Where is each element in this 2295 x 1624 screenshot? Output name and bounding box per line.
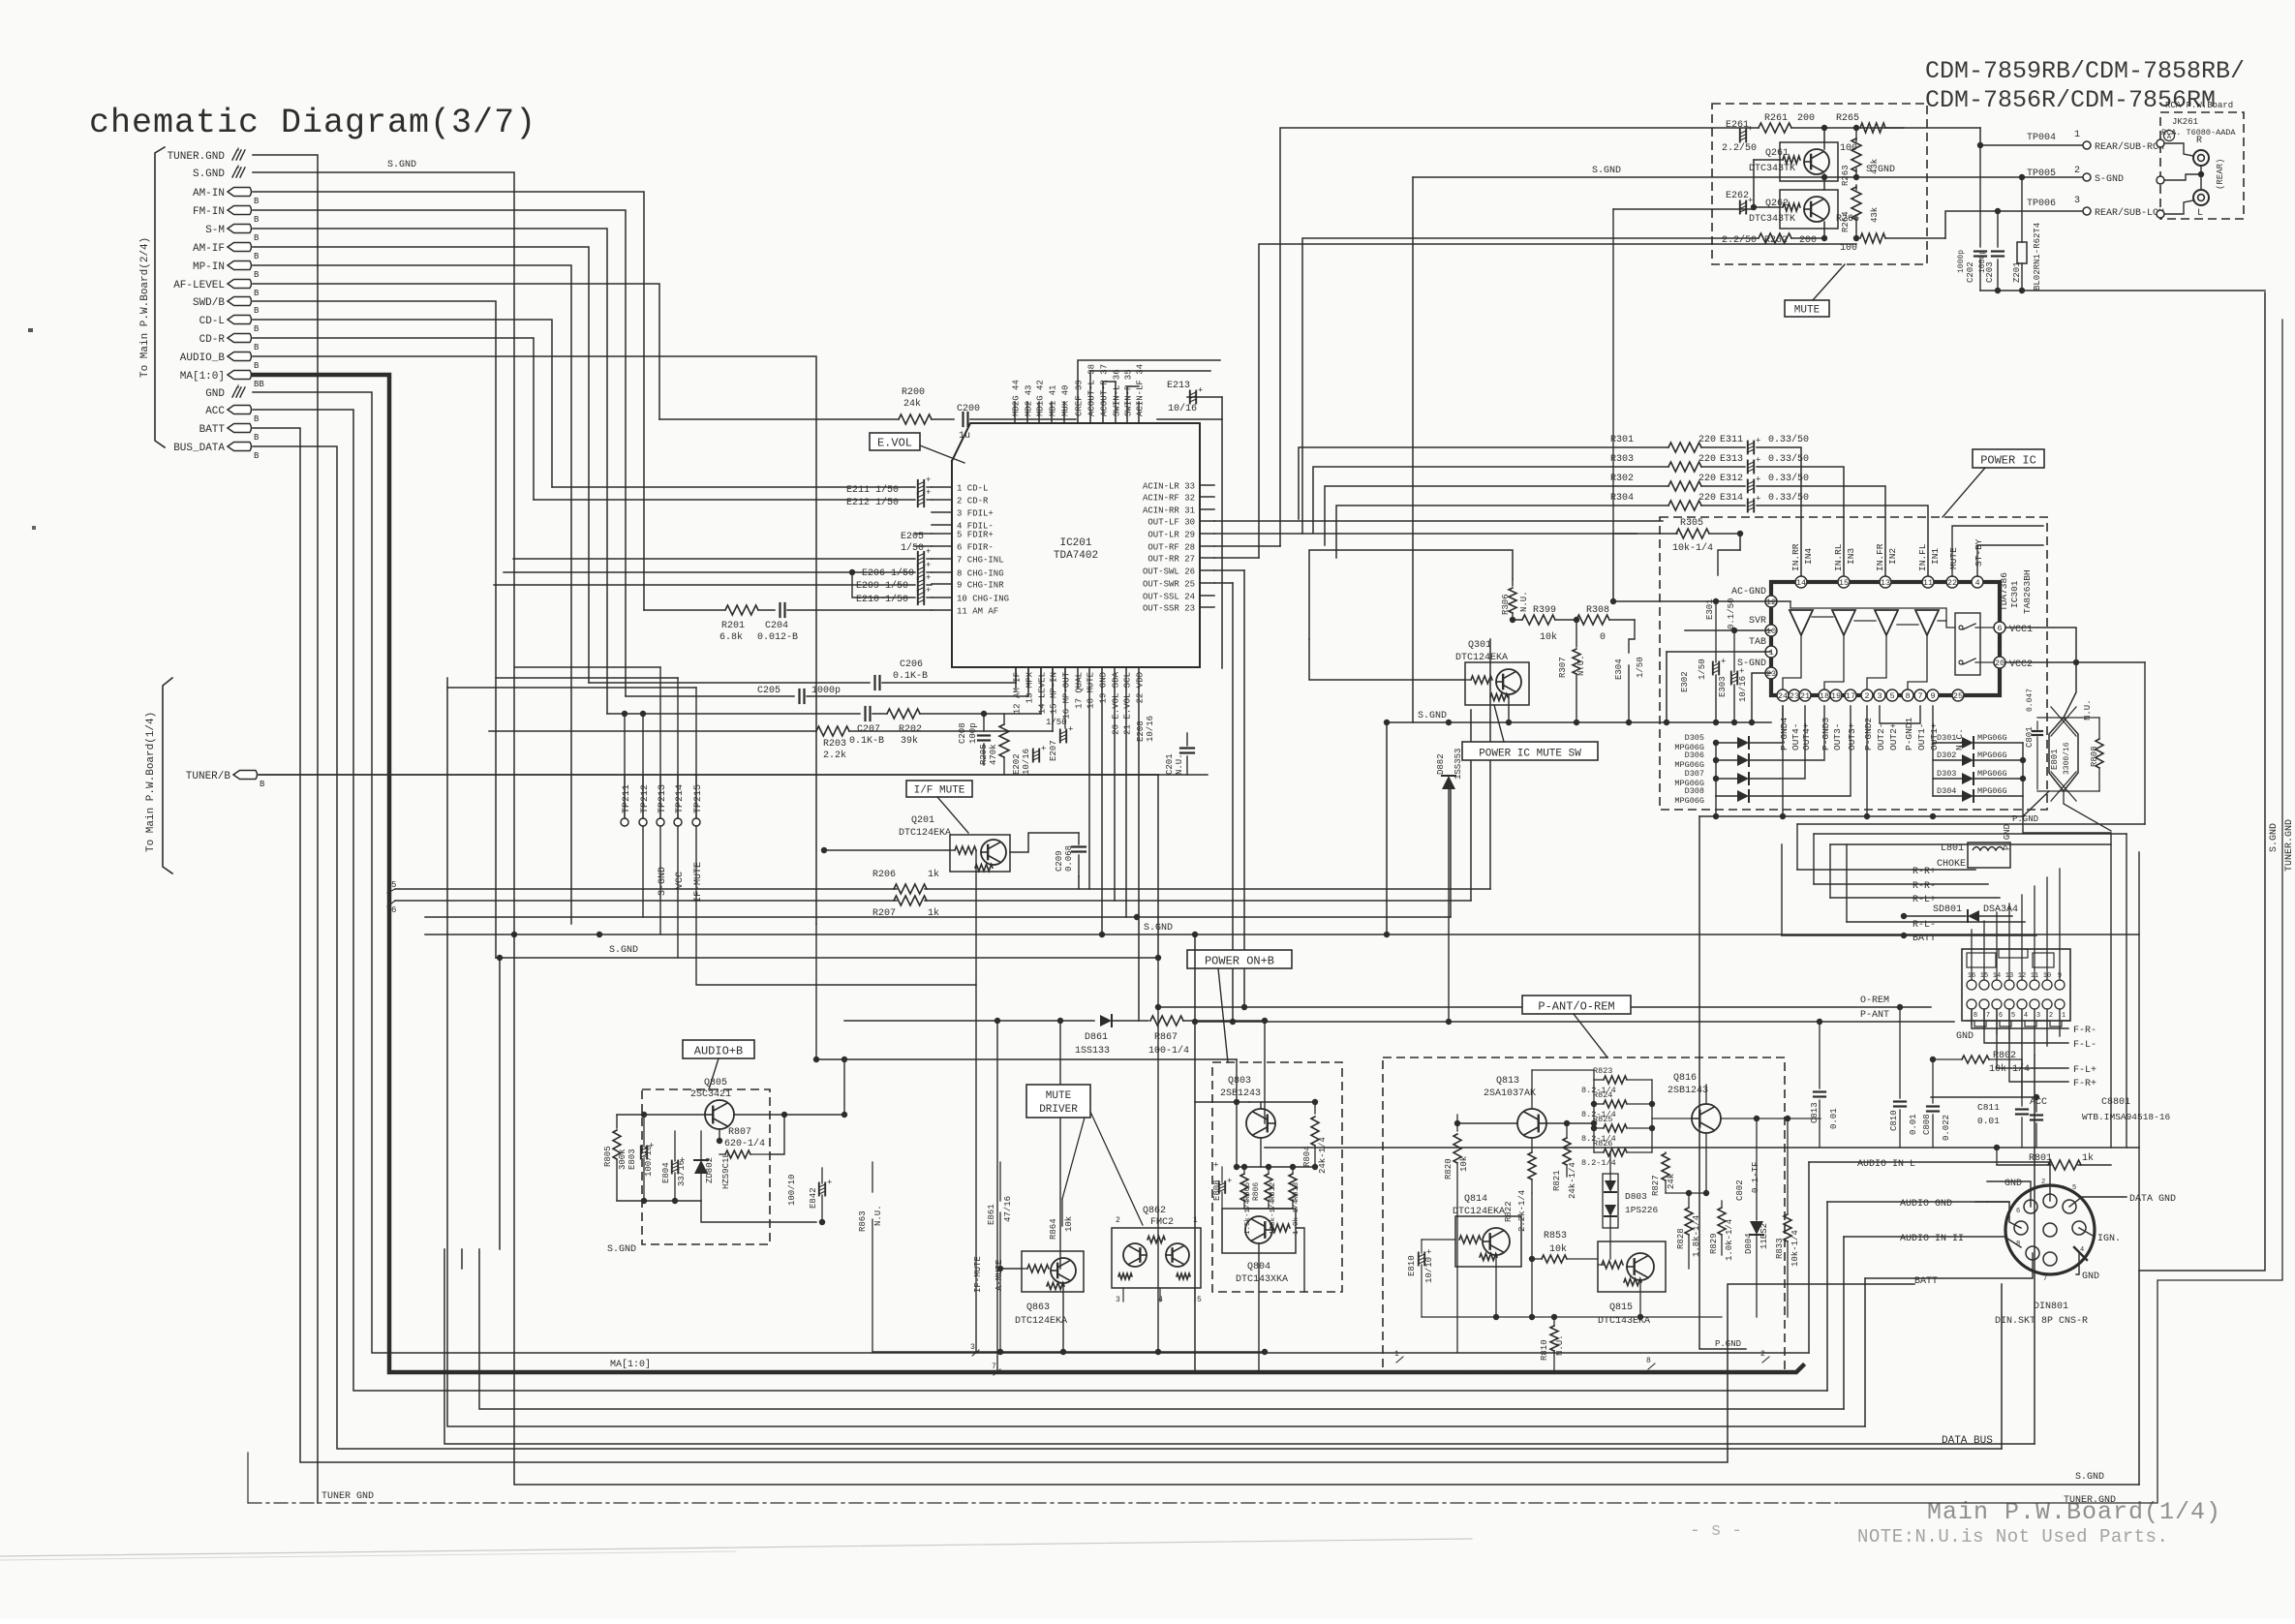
svg-text:OUT3-: OUT3- [1832, 722, 1843, 751]
S.GND riser right [2139, 292, 2265, 1485]
svg-text:DTC124EKA: DTC124EKA [899, 828, 951, 839]
svg-text:Q201: Q201 [911, 815, 934, 826]
svg-text:DTC143XKA: DTC143XKA [1236, 1274, 1288, 1285]
svg-text:MPG06G: MPG06G [1977, 769, 2007, 779]
svg-text:E810: E810 [1407, 1255, 1417, 1276]
wire S-M [253, 229, 607, 714]
svg-text:DIN801: DIN801 [2034, 1302, 2068, 1312]
junction at E209 [849, 569, 855, 575]
svg-text:3: 3 [1877, 691, 1882, 701]
wire AM-IN [253, 192, 644, 610]
svg-text:TDA7386: TDA7386 [1999, 572, 2009, 611]
svg-text:B: B [254, 270, 260, 280]
svg-text:SWIN-R 35: SWIN-R 35 [1124, 369, 1134, 416]
svg-text:POWER IC: POWER IC [1980, 454, 2036, 468]
svg-text:C801: C801 [2025, 726, 2035, 748]
svg-text:OUT-LR 29: OUT-LR 29 [1147, 531, 1195, 540]
svg-text:11ES2: 11ES2 [1759, 1223, 1769, 1249]
svg-text:TA8263BH: TA8263BH [2022, 569, 2033, 614]
svg-text:IN3: IN3 [1846, 548, 1856, 565]
svg-text:+: + [926, 488, 931, 498]
svg-text:R828: R828 [1676, 1228, 1686, 1249]
AUDIO+B wiring [617, 1114, 705, 1116]
svg-text:F-R+: F-R+ [2073, 1079, 2096, 1089]
svg-text:8: 8 [1974, 1012, 1977, 1020]
DIN801 socket [2005, 1185, 2095, 1274]
svg-text:E208: E208 [1136, 720, 1146, 742]
wire BUS_DATA [253, 446, 2002, 1449]
wires out of POWER ON+B [1194, 935, 1196, 1372]
svg-text:7 CHG-INL: 7 CHG-INL [957, 556, 1004, 566]
svg-text:E861: E861 [987, 1204, 996, 1225]
svg-text:+: + [1721, 658, 1726, 667]
svg-text:ST-BY: ST-BY [1974, 538, 1984, 567]
svg-text:D302: D302 [1937, 751, 1956, 760]
svg-text:S.GND: S.GND [1144, 923, 1173, 934]
svg-text:GND: GND [2004, 1179, 2022, 1189]
svg-text:TP211: TP211 [622, 784, 632, 813]
svg-text:E804: E804 [661, 1162, 671, 1183]
svg-text:OUT3+: OUT3+ [1847, 722, 1857, 751]
svg-text:To Main P.W.Board(2/4): To Main P.W.Board(2/4) [139, 237, 151, 378]
svg-text:R806: R806 [1252, 1182, 1261, 1201]
svg-text:ACOUT-R 37: ACOUT-R 37 [1100, 364, 1110, 416]
svg-text:14 LEVEL: 14 LEVEL [1038, 672, 1048, 714]
connector bottom pin wires [1971, 1009, 1973, 1025]
svg-text:6.8k: 6.8k [719, 631, 743, 643]
svg-text:+: + [649, 1142, 654, 1151]
svg-text:B: B [254, 215, 260, 225]
svg-text:TP212: TP212 [640, 784, 651, 813]
svg-text:13 MPX: 13 MPX [1025, 671, 1035, 703]
svg-text:10k: 10k [1459, 1156, 1469, 1172]
svg-text:S.GND: S.GND [2075, 1472, 2104, 1483]
svg-text:3: 3 [970, 1343, 975, 1352]
svg-text:A-MUTE: A-MUTE [994, 1260, 1004, 1291]
svg-text:R203: R203 [823, 739, 846, 750]
svg-text:ACIN-LR 33: ACIN-LR 33 [1143, 482, 1195, 492]
svg-text:GND: GND [2082, 1272, 2099, 1282]
svg-text:C206: C206 [900, 659, 923, 670]
svg-text:R201: R201 [721, 621, 745, 631]
svg-text:S.GND: S.GND [193, 169, 225, 180]
svg-text:B: B [254, 197, 260, 206]
svg-text:R263: R263 [1841, 165, 1851, 186]
svg-text:D861: D861 [1085, 1032, 1108, 1043]
D305-8 bus wiring [1715, 743, 1717, 796]
svg-text:4: 4 [2080, 1246, 2084, 1254]
svg-text:AM-IF: AM-IF [193, 243, 225, 255]
svg-text:22: 22 [1947, 578, 1957, 588]
svg-text:10/16: 10/16 [1168, 403, 1197, 414]
svg-text:+: + [926, 586, 931, 596]
svg-text:C204: C204 [765, 621, 788, 631]
svg-text:S.GND: S.GND [1866, 165, 1895, 175]
svg-text:MD2G 44: MD2G 44 [1012, 380, 1022, 416]
svg-text:+: + [1756, 456, 1760, 466]
svg-text:N.U.: N.U. [1175, 753, 1184, 775]
svg-text:220: 220 [1698, 493, 1716, 504]
svg-text:E312: E312 [1720, 474, 1743, 484]
svg-text:0.1/50: 0.1/50 [1727, 598, 1736, 629]
svg-text:ACIN-RF 32: ACIN-RF 32 [1143, 494, 1195, 504]
svg-text:HZS9C1L: HZS9C1L [721, 1152, 731, 1189]
svg-text:47/16: 47/16 [1003, 1196, 1013, 1222]
svg-text:D803: D803 [1625, 1191, 1647, 1202]
svg-text:E212 1/50: E212 1/50 [846, 497, 899, 508]
svg-text:24k-1/4: 24k-1/4 [1568, 1162, 1577, 1199]
svg-text:S.GND: S.GND [1592, 166, 1621, 176]
svg-text:7: 7 [1986, 1012, 1990, 1020]
svg-text:E311: E311 [1720, 435, 1743, 445]
svg-text:B: B [254, 451, 260, 461]
svg-text:3300/16: 3300/16 [2063, 742, 2071, 775]
svg-text:DATA GND: DATA GND [2129, 1194, 2176, 1205]
svg-text:N.U.: N.U. [1576, 655, 1586, 676]
svg-text:12: 12 [1766, 598, 1776, 607]
svg-text:C810: C810 [1889, 1110, 1899, 1131]
svg-text:MPG06G: MPG06G [1674, 796, 1704, 806]
svg-text:BATT: BATT [199, 424, 226, 436]
svg-text:RCA P.W.Board: RCA P.W.Board [2165, 101, 2233, 110]
svg-text:POWER IC MUTE SW: POWER IC MUTE SW [1479, 749, 1581, 760]
svg-text:B: B [254, 414, 260, 424]
svg-text:19 GND: 19 GND [1099, 672, 1109, 703]
label POWER IC [1973, 449, 2044, 468]
svg-text:E801: E801 [2050, 749, 2060, 770]
svg-text:9 CHG-INR: 9 CHG-INR [957, 581, 1004, 591]
svg-text:620-1/4: 620-1/4 [724, 1138, 765, 1149]
svg-text:S.GND: S.GND [609, 945, 638, 956]
svg-text:+: + [1739, 667, 1744, 677]
svg-text:E314: E314 [1720, 493, 1743, 504]
svg-text:R807: R807 [728, 1127, 751, 1138]
wire VCC2 [2005, 662, 2076, 718]
svg-text:IN2: IN2 [1887, 548, 1898, 565]
svg-text:MPG06G: MPG06G [1977, 733, 2007, 743]
svg-text:F-R-: F-R- [2073, 1026, 2096, 1036]
svg-text:1: 1 [1394, 1350, 1399, 1359]
svg-text:220: 220 [1698, 435, 1716, 445]
svg-text:2: 2 [2074, 166, 2080, 176]
svg-text:IF-MUTE: IF-MUTE [973, 1256, 983, 1293]
svg-text:B: B [254, 306, 260, 316]
connector top pin wires [1971, 930, 1973, 980]
svg-text:BL02RN1-R62T4: BL02RN1-R62T4 [2033, 223, 2042, 291]
svg-text:B: B [254, 433, 260, 443]
svg-text:6: 6 [391, 905, 396, 915]
wire CD-R [253, 338, 534, 500]
svg-text:E262: E262 [1726, 191, 1749, 201]
DIN wiring [1809, 1162, 2050, 1201]
svg-text:AM-IN: AM-IN [193, 188, 225, 199]
svg-text:13: 13 [1881, 578, 1890, 588]
svg-text:R867: R867 [1154, 1032, 1178, 1043]
svg-text:0.33/50: 0.33/50 [1768, 453, 1809, 465]
svg-text:1/50: 1/50 [901, 542, 924, 554]
svg-text:10/16: 10/16 [1022, 749, 1031, 775]
svg-text:B: B [254, 343, 260, 352]
svg-text:D303: D303 [1937, 769, 1956, 779]
svg-text:Q815: Q815 [1609, 1302, 1633, 1313]
svg-text:VCC: VCC [675, 872, 686, 889]
svg-text:TP214: TP214 [675, 784, 686, 813]
svg-text:E313: E313 [1720, 454, 1743, 465]
svg-text:R: R [2196, 136, 2202, 146]
wires OUT-LF..OUT-SWR [1214, 520, 1663, 522]
svg-text:OUT-RF 28: OUT-RF 28 [1147, 543, 1195, 553]
svg-text:C802: C802 [1735, 1180, 1745, 1201]
svg-text:MPG06G: MPG06G [1977, 751, 2007, 760]
svg-text:0.33/50: 0.33/50 [1768, 434, 1809, 445]
wire base bus y1396 [872, 1351, 1265, 1353]
svg-text:IN1: IN1 [1930, 548, 1941, 565]
dashed P-ANT/O-REM box [1383, 1057, 1785, 1373]
wire Q201 base to IF-MUTE net [824, 849, 950, 851]
svg-text:0.33/50: 0.33/50 [1768, 473, 1809, 484]
svg-text:R266: R266 [1836, 214, 1859, 225]
svg-text:L: L [2197, 208, 2203, 219]
svg-text:R822: R822 [1504, 1201, 1514, 1222]
svg-text:R307: R307 [1558, 657, 1568, 678]
svg-text:5: 5 [1197, 1296, 1202, 1304]
svg-text:8: 8 [1905, 691, 1910, 701]
svg-text:7: 7 [1917, 691, 1922, 701]
svg-text:2.2/50: 2.2/50 [1722, 142, 1757, 154]
TUNER.GND riser right [1840, 320, 2282, 1503]
svg-text:3: 3 [2074, 196, 2080, 206]
svg-text:P-GND2: P-GND2 [1863, 717, 1874, 751]
svg-text:1: 1 [2074, 130, 2080, 140]
svg-text:10: 10 [1766, 627, 1776, 636]
svg-text:E211 1/50: E211 1/50 [846, 484, 899, 496]
wire VCC1 [2005, 628, 2076, 662]
svg-text:2: 2 [1116, 1216, 1120, 1225]
svg-text:IF-MUTE: IF-MUTE [693, 862, 704, 903]
svg-text:OUT-RR 27: OUT-RR 27 [1147, 555, 1195, 565]
svg-text:10k: 10k [1064, 1216, 1074, 1232]
dashed MUTE block [1712, 104, 1927, 264]
svg-text:P-GND1: P-GND1 [1904, 717, 1914, 751]
svg-text:100-1/4: 100-1/4 [1148, 1045, 1189, 1057]
svg-text:D804: D804 [1744, 1233, 1754, 1254]
svg-text:15 MP-IN: 15 MP-IN [1050, 672, 1059, 714]
svg-text:E206 1/50: E206 1/50 [862, 567, 914, 579]
extra rail from C8801 to left (ACC) [2022, 1096, 2036, 1098]
svg-text:23: 23 [1766, 669, 1776, 679]
svg-text:200: 200 [1797, 113, 1815, 124]
svg-text:R864: R864 [1049, 1218, 1058, 1240]
svg-text:R821: R821 [1552, 1170, 1562, 1191]
svg-text:MUTE: MUTE [1794, 305, 1821, 317]
wire CD-L [253, 320, 552, 487]
svg-text:1: 1 [1768, 648, 1773, 658]
svg-text:15: 15 [1839, 578, 1849, 588]
svg-text:+: + [1756, 437, 1760, 446]
svg-text:2: 2 [1760, 1350, 1765, 1359]
svg-text:ZD802: ZD802 [705, 1157, 715, 1183]
svg-text:5: 5 [1889, 691, 1894, 701]
RCA port pins [2157, 139, 2164, 147]
svg-text:8: 8 [1646, 1357, 1651, 1365]
svg-text:B: B [254, 289, 260, 298]
svg-text:E808: E808 [1212, 1180, 1222, 1201]
svg-text:DTC124EKA: DTC124EKA [1015, 1316, 1067, 1327]
svg-text:10/16: 10/16 [1146, 716, 1155, 742]
svg-text:1000p: 1000p [1957, 250, 1966, 273]
svg-text:R265: R265 [1836, 113, 1859, 124]
svg-text:S-GND: S-GND [658, 867, 668, 896]
IC301 left pins [1765, 596, 1777, 607]
svg-text:4: 4 [1974, 578, 1979, 588]
svg-text:C808: C808 [1922, 1114, 1932, 1135]
svg-text:R812: R812 [1269, 1182, 1277, 1201]
Q863 wires [1000, 1268, 1022, 1270]
circled A [2164, 131, 2175, 141]
svg-text:1k: 1k [2082, 1152, 2094, 1164]
svg-text:IN4: IN4 [1803, 548, 1814, 565]
svg-text:0.1K-B: 0.1K-B [893, 671, 928, 682]
svg-text:DTC343TK: DTC343TK [1749, 214, 1795, 225]
svg-text:10k-1/4: 10k-1/4 [1989, 1063, 2030, 1075]
svg-text:P-GND4: P-GND4 [1779, 717, 1790, 751]
bracket To Main P.W.Board(1/4) [163, 678, 172, 873]
svg-text:18: 18 [1820, 691, 1829, 701]
svg-text:TUNER.GND: TUNER.GND [2284, 819, 2295, 872]
svg-text:AUDIO IN II: AUDIO IN II [1900, 1234, 1964, 1244]
svg-text:E803: E803 [627, 1149, 637, 1170]
svg-text:REAR/SUB-RCH: REAR/SUB-RCH [2095, 141, 2164, 153]
svg-text:+: + [1212, 1162, 1222, 1167]
wire GND [253, 392, 1809, 1353]
svg-text:E210 1/50: E210 1/50 [856, 594, 908, 605]
svg-text:OUT-LF 30: OUT-LF 30 [1147, 518, 1195, 528]
svg-text:19: 19 [1831, 691, 1841, 701]
svg-text:IN.FL: IN.FL [1917, 543, 1928, 571]
svg-text:1PS226: 1PS226 [1625, 1205, 1659, 1215]
label POWER ON+B [1187, 950, 1292, 968]
svg-text:MUTE: MUTE [1046, 1090, 1072, 1102]
svg-text:BB: BB [254, 380, 264, 389]
svg-text:CDM-7859RB/CDM-7858RB/: CDM-7859RB/CDM-7858RB/ [1925, 57, 2245, 85]
wire BATT [253, 428, 1914, 1462]
svg-text:AUDIO+B: AUDIO+B [694, 1045, 743, 1058]
wires to IC301 left pins [1613, 600, 1771, 602]
svg-text:6: 6 [2016, 1208, 2020, 1215]
svg-text:R863: R863 [858, 1210, 868, 1232]
svg-text:R833: R833 [1775, 1238, 1785, 1259]
svg-text:AF-LEVEL: AF-LEVEL [173, 280, 225, 291]
svg-text:D301: D301 [1937, 733, 1956, 743]
svg-text:3: 3 [1116, 1296, 1120, 1304]
svg-text:3: 3 [2036, 1012, 2040, 1020]
svg-text:2.2k-1/4: 2.2k-1/4 [1517, 1190, 1527, 1232]
svg-text:R824: R824 [1593, 1090, 1612, 1100]
svg-text:IN.FR: IN.FR [1875, 543, 1885, 571]
op-amps inside IC301 [1790, 610, 1813, 635]
svg-text:17 QUAL: 17 QUAL [1075, 672, 1085, 709]
svg-text:+: + [926, 475, 931, 485]
svg-text:ACIN-RR 31: ACIN-RR 31 [1143, 506, 1195, 516]
svg-text:JK261: JK261 [2172, 117, 2198, 127]
svg-text:R206: R206 [872, 870, 896, 880]
svg-text:21: 21 [1800, 691, 1810, 701]
svg-text:MUX 40: MUX 40 [1061, 385, 1071, 416]
svg-text:0.1K-B: 0.1K-B [849, 736, 884, 747]
svg-text:VCC2: VCC2 [2009, 659, 2033, 670]
svg-text:2: 2 [1864, 691, 1869, 701]
AUDIO+B top feed [734, 1114, 784, 1116]
svg-text:2SB1243: 2SB1243 [1668, 1086, 1708, 1096]
svg-text:MA[1:0]: MA[1:0] [610, 1359, 651, 1370]
svg-text:1k: 1k [928, 869, 939, 880]
svg-text:E213: E213 [1167, 381, 1190, 391]
svg-text:OUT4+: OUT4+ [1801, 722, 1812, 751]
label E.VOL [870, 433, 920, 450]
svg-text:VCC1: VCC1 [2009, 625, 2033, 635]
svg-text:R823: R823 [1593, 1066, 1612, 1076]
IN-INT rail [1931, 1009, 2022, 1097]
svg-text:S.GND: S.GND [2269, 823, 2280, 852]
svg-text:TUNER.GND: TUNER.GND [2064, 1495, 2116, 1506]
wire R801 down [1996, 1148, 1998, 1165]
svg-text:S-GND: S-GND [2095, 174, 2124, 185]
svg-text:220: 220 [1698, 454, 1716, 465]
svg-text:1: 1 [2062, 1012, 2065, 1020]
svg-text:D304: D304 [1937, 786, 1956, 796]
bottom bus lines [499, 958, 501, 1249]
svg-text:F-L-: F-L- [2073, 1040, 2096, 1051]
svg-text:1/50: 1/50 [1046, 718, 1067, 727]
svg-text:+: + [926, 573, 931, 583]
svg-text:2: 2 [2049, 1012, 2053, 1020]
svg-text:21 E.VOL SCL: 21 E.VOL SCL [1123, 672, 1133, 735]
svg-text:C207: C207 [857, 724, 880, 735]
svg-text:R202: R202 [899, 724, 922, 735]
svg-text:OUT-SSL 24: OUT-SSL 24 [1143, 593, 1195, 602]
svg-text:0.022: 0.022 [1942, 1115, 1951, 1141]
svg-text:23: 23 [1790, 691, 1799, 701]
svg-text:1000p: 1000p [811, 686, 841, 696]
wire E262 feed riser [1613, 208, 1754, 210]
svg-text:C8801: C8801 [2101, 1097, 2130, 1108]
svg-text:TP004: TP004 [2027, 133, 2056, 143]
label POWER IC MUTE SW [1462, 742, 1598, 760]
bracket To Main P.W.Board(2/4) [155, 147, 165, 447]
svg-text:R205: R205 [979, 744, 989, 765]
wire Q301 base [1309, 639, 1465, 680]
svg-text:+: + [1426, 1248, 1431, 1258]
svg-text:6 FDIR-: 6 FDIR- [957, 543, 994, 553]
svg-text:REAR/SUB-LCH: REAR/SUB-LCH [2095, 207, 2164, 219]
S.GND rail under IC [1028, 774, 1208, 776]
svg-text:MD1 41: MD1 41 [1049, 385, 1058, 416]
bus MA[1:0] [253, 375, 1803, 1372]
svg-text:P.GND: P.GND [1715, 1339, 1741, 1349]
label AUDIO+B [683, 1040, 754, 1058]
svg-text:E302: E302 [1680, 671, 1690, 692]
svg-text:0.012-B: 0.012-B [757, 632, 798, 643]
svg-text:WTB.IMSA94518-16: WTB.IMSA94518-16 [2082, 1112, 2171, 1122]
svg-text:R-R+: R-R+ [1912, 867, 1936, 877]
svg-text:C208: C208 [958, 722, 967, 744]
wire TUNER.GND [253, 155, 318, 1503]
svg-text:OUT-SWL 26: OUT-SWL 26 [1143, 567, 1195, 577]
wires Q261/Q262 [1754, 159, 1780, 161]
svg-text:R805: R805 [603, 1146, 613, 1167]
svg-text:Q301: Q301 [1468, 640, 1491, 651]
svg-text:+: + [1227, 1177, 1232, 1186]
